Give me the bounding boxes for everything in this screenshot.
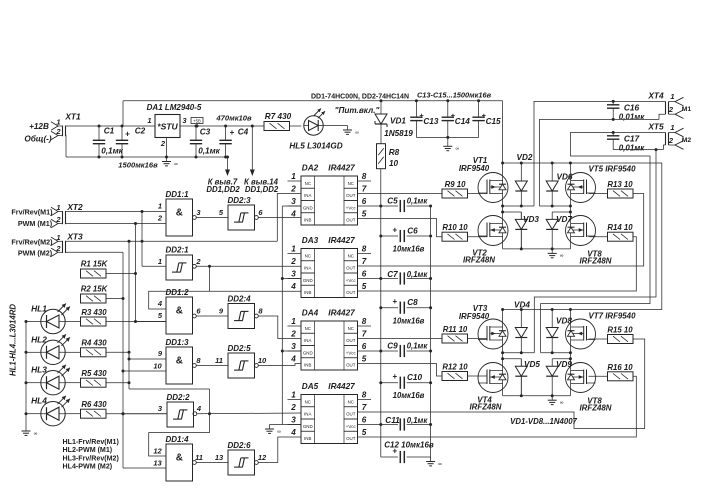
svg-text:*STU: *STU (157, 122, 178, 132)
svg-text:+5В: +5В (193, 118, 201, 123)
svg-text:DA2: DA2 (302, 164, 319, 173)
svg-text:1: 1 (56, 233, 60, 242)
svg-text:11: 11 (215, 356, 223, 365)
svg-text:C10: C10 (407, 373, 422, 382)
svg-text:C5: C5 (387, 196, 398, 205)
svg-text:R4 430: R4 430 (81, 339, 107, 348)
svg-text:DD1:2: DD1:2 (165, 288, 189, 297)
svg-text:10: 10 (258, 356, 267, 365)
svg-text:∞: ∞ (174, 161, 178, 167)
svg-text:&: & (176, 208, 183, 219)
svg-text:+Vcc: +Vcc (346, 350, 357, 355)
svg-text:C13-C15...1500мк16в: C13-C15...1500мк16в (417, 91, 492, 100)
svg-text:5: 5 (362, 282, 367, 291)
svg-text:IR4427: IR4427 (328, 382, 355, 391)
svg-text:GND: GND (303, 424, 313, 429)
svg-text:5: 5 (362, 428, 367, 437)
svg-text:DD1:1: DD1:1 (165, 190, 189, 199)
svg-text:0,1мк: 0,1мк (407, 270, 429, 279)
svg-text:1: 1 (56, 203, 60, 212)
svg-text:2: 2 (290, 184, 296, 193)
svg-text:DD1,DD2: DD1,DD2 (245, 185, 279, 194)
svg-text:1: 1 (291, 390, 296, 399)
svg-text:C12 10мк16в: C12 10мк16в (384, 440, 434, 449)
svg-text:IRFZ48N: IRFZ48N (579, 257, 611, 266)
svg-text:IR4427: IR4427 (328, 236, 355, 245)
svg-text:INB: INB (304, 436, 311, 441)
svg-text:2: 2 (55, 127, 61, 136)
svg-text:INA: INA (304, 193, 311, 198)
svg-text:1500мк16в: 1500мк16в (118, 161, 158, 170)
svg-text:Frv/Rev(M2): Frv/Rev(M2) (11, 237, 53, 246)
svg-text:6: 6 (362, 269, 367, 278)
svg-text:OUT: OUT (346, 218, 356, 223)
svg-text:R9 10: R9 10 (445, 180, 466, 189)
svg-text:1: 1 (291, 317, 296, 326)
svg-text:∞: ∞ (560, 253, 564, 259)
svg-text:∞: ∞ (277, 429, 281, 435)
svg-text:+: + (392, 372, 397, 381)
svg-text:13: 13 (153, 459, 162, 468)
svg-text:∞: ∞ (456, 146, 460, 152)
svg-text:2: 2 (668, 105, 674, 114)
svg-text:VD9: VD9 (556, 360, 572, 369)
svg-text:HL4-PWM (M2): HL4-PWM (M2) (63, 463, 113, 471)
svg-text:0,1мк: 0,1мк (101, 147, 123, 156)
svg-text:XT2: XT2 (66, 202, 83, 212)
svg-text:10мк16в: 10мк16в (393, 317, 425, 326)
svg-text:C17: C17 (624, 133, 640, 143)
svg-text:GND: GND (303, 350, 313, 355)
svg-text:DA5: DA5 (302, 382, 319, 391)
svg-text:2: 2 (157, 214, 163, 223)
svg-text:HL5 L3014GD: HL5 L3014GD (289, 142, 342, 151)
svg-text:8: 8 (362, 244, 367, 253)
svg-text:R10 10: R10 10 (442, 223, 468, 232)
svg-text:PWM (M2): PWM (M2) (18, 248, 53, 257)
svg-text:0,01мк: 0,01мк (619, 112, 645, 121)
svg-text:NC: NC (305, 181, 311, 186)
svg-text:1: 1 (158, 202, 162, 211)
svg-text:DD1:3: DD1:3 (165, 338, 189, 347)
svg-text:1: 1 (56, 117, 60, 126)
svg-text:R3 430: R3 430 (81, 308, 107, 317)
svg-text:OUT: OUT (346, 412, 356, 417)
svg-text:VD8: VD8 (556, 317, 572, 326)
svg-text:М1: М1 (682, 106, 692, 113)
svg-text:GND: GND (303, 278, 313, 283)
svg-text:+Vcc: +Vcc (346, 424, 357, 429)
svg-text:10: 10 (389, 159, 399, 168)
svg-text:IRFZ48N: IRFZ48N (579, 404, 611, 413)
svg-text:10: 10 (153, 362, 162, 371)
svg-text:2: 2 (55, 244, 61, 253)
svg-text:INA: INA (304, 412, 311, 417)
svg-text:Frv/Rev(M1): Frv/Rev(M1) (11, 208, 53, 217)
svg-text:PWM (M1): PWM (M1) (18, 219, 53, 228)
svg-text:R13 10: R13 10 (607, 180, 633, 189)
svg-text:OUT: OUT (346, 290, 356, 295)
svg-text:10мк16в: 10мк16в (393, 391, 425, 400)
svg-text:2: 2 (290, 329, 296, 338)
svg-text:+: + (392, 297, 397, 306)
svg-text:М2: М2 (682, 137, 692, 144)
svg-text:INA: INA (304, 266, 311, 271)
svg-text:C13: C13 (423, 117, 438, 126)
svg-text:Общ(-): Общ(-) (24, 134, 52, 144)
svg-text:12: 12 (153, 447, 162, 456)
svg-text:HL1-Frv/Rev(M1): HL1-Frv/Rev(M1) (63, 438, 120, 446)
svg-text:&: & (176, 356, 183, 367)
svg-text:2: 2 (668, 136, 674, 145)
svg-text:C3: C3 (200, 128, 211, 137)
svg-text:HL2-PWM (M1): HL2-PWM (M1) (63, 446, 113, 454)
svg-text:7: 7 (362, 257, 367, 266)
svg-text:1: 1 (291, 172, 296, 181)
svg-text:IRF9540: IRF9540 (459, 164, 490, 173)
svg-text:DD2:1: DD2:1 (165, 246, 189, 255)
svg-text:3: 3 (291, 197, 296, 206)
svg-text:DA3: DA3 (302, 236, 319, 245)
svg-text:R1 15K: R1 15K (81, 260, 109, 269)
svg-text:2: 2 (195, 257, 201, 266)
svg-text:C8: C8 (407, 298, 418, 307)
svg-text:OUT: OUT (346, 338, 356, 343)
svg-text:C15: C15 (486, 117, 501, 126)
svg-text:IRFZ48N: IRFZ48N (469, 403, 501, 412)
svg-text:1: 1 (670, 92, 674, 101)
svg-text:NC: NC (305, 326, 311, 331)
svg-text:2: 2 (160, 139, 166, 148)
svg-text:VT5 IRF9540: VT5 IRF9540 (589, 164, 637, 173)
svg-text:HL1-HL4...L3014RD: HL1-HL4...L3014RD (9, 304, 18, 376)
svg-text:XT3: XT3 (66, 232, 83, 242)
svg-text:C7: C7 (387, 270, 398, 279)
svg-text:6: 6 (362, 342, 367, 351)
svg-text:DD2:3: DD2:3 (227, 196, 251, 205)
svg-text:4: 4 (290, 209, 296, 218)
svg-text:IRFZ48N: IRFZ48N (463, 256, 495, 265)
svg-text:0,1мк: 0,1мк (407, 416, 429, 425)
svg-text:4: 4 (196, 404, 202, 413)
svg-text:XT4: XT4 (647, 91, 664, 101)
svg-text:&: & (176, 306, 183, 317)
svg-text:+: + (125, 130, 130, 139)
svg-text:6: 6 (362, 415, 367, 424)
svg-text:R16 10: R16 10 (607, 363, 633, 372)
svg-text:DD2:4: DD2:4 (227, 295, 251, 304)
svg-text:2: 2 (290, 403, 296, 412)
svg-text:"Пит.вкл.": "Пит.вкл." (335, 106, 380, 115)
svg-text:HL1: HL1 (31, 304, 47, 314)
svg-text:470мк10в: 470мк10в (215, 114, 252, 123)
svg-text:+Vcc: +Vcc (346, 205, 357, 210)
svg-text:1: 1 (147, 116, 151, 125)
svg-text:C2: C2 (135, 127, 146, 136)
svg-text:INB: INB (304, 290, 311, 295)
svg-text:R8: R8 (389, 148, 400, 157)
svg-text:4: 4 (290, 354, 296, 363)
svg-text:DD2:2: DD2:2 (166, 393, 190, 402)
svg-text:HL2: HL2 (31, 334, 47, 344)
svg-text:GND: GND (303, 205, 313, 210)
svg-text:R6 430: R6 430 (81, 400, 107, 409)
svg-text:C6: C6 (407, 227, 418, 236)
svg-text:NC: NC (348, 181, 354, 186)
svg-text:3: 3 (291, 269, 296, 278)
svg-text:DD2:5: DD2:5 (227, 344, 251, 353)
svg-text:INB: INB (304, 218, 311, 223)
svg-text:1N5819: 1N5819 (384, 129, 413, 138)
svg-text:IR4427: IR4427 (328, 309, 355, 318)
svg-text:R5 430: R5 430 (81, 369, 107, 378)
svg-text:OUT: OUT (346, 436, 356, 441)
svg-text:XT1: XT1 (64, 112, 81, 122)
svg-text:13: 13 (215, 453, 224, 462)
svg-text:R12 10: R12 10 (442, 363, 468, 372)
svg-text:C16: C16 (624, 102, 640, 112)
svg-text:C1: C1 (104, 127, 115, 136)
svg-text:C9: C9 (387, 341, 398, 350)
svg-text:2: 2 (290, 257, 296, 266)
svg-text:1: 1 (291, 244, 296, 253)
svg-text:3: 3 (291, 342, 296, 351)
svg-text:+12В: +12В (29, 122, 49, 131)
svg-text:0,1мк: 0,1мк (407, 196, 429, 205)
svg-text:R11 10: R11 10 (443, 325, 468, 334)
svg-text:+Vcc: +Vcc (346, 278, 357, 283)
svg-text:NC: NC (348, 326, 354, 331)
svg-text:0,01мк: 0,01мк (619, 143, 645, 152)
svg-text:10мк16в: 10мк16в (393, 245, 425, 254)
svg-text:OUT: OUT (346, 193, 356, 198)
svg-text:OUT: OUT (346, 266, 356, 271)
svg-text:∞: ∞ (438, 461, 442, 467)
svg-text:C4: C4 (238, 128, 249, 137)
svg-text:DD1-74HC00N, DD2-74HC14N: DD1-74HC00N, DD2-74HC14N (311, 94, 409, 101)
svg-text:INA: INA (304, 338, 311, 343)
svg-text:DD2:6: DD2:6 (227, 441, 251, 450)
svg-text:R2 15K: R2 15K (81, 285, 109, 294)
svg-text:IR4427: IR4427 (328, 164, 355, 173)
svg-text:XT5: XT5 (647, 122, 664, 132)
svg-text:INB: INB (304, 363, 311, 368)
svg-text:R14 10: R14 10 (607, 223, 633, 232)
svg-text:VD1: VD1 (390, 117, 406, 126)
svg-text:6: 6 (362, 197, 367, 206)
svg-text:NC: NC (348, 399, 354, 404)
svg-text:4: 4 (290, 282, 296, 291)
svg-text:4: 4 (290, 428, 296, 437)
svg-text:VD7: VD7 (556, 215, 572, 224)
svg-text:0,1мк: 0,1мк (198, 147, 220, 156)
svg-text:NC: NC (305, 253, 311, 258)
svg-text:2: 2 (55, 215, 61, 224)
svg-text:VD2: VD2 (517, 153, 533, 162)
svg-text:NC: NC (305, 399, 311, 404)
svg-text:0,1мк: 0,1мк (407, 341, 429, 350)
svg-text:HL3-Frv/Rev(M2): HL3-Frv/Rev(M2) (63, 454, 120, 462)
svg-text:VD4: VD4 (514, 301, 530, 310)
svg-text:∞: ∞ (560, 400, 564, 406)
svg-text:12: 12 (258, 453, 267, 462)
svg-text:7: 7 (362, 184, 367, 193)
svg-text:VD6: VD6 (557, 172, 573, 181)
svg-text:DD1:4: DD1:4 (165, 435, 189, 444)
svg-text:VD1-VD8...1N4007: VD1-VD8...1N4007 (510, 417, 577, 426)
svg-text:∞: ∞ (355, 130, 359, 136)
svg-text:11: 11 (195, 453, 203, 462)
svg-text:5: 5 (362, 354, 367, 363)
svg-text:C11: C11 (385, 416, 400, 425)
svg-text:VD3: VD3 (523, 215, 539, 224)
svg-text:&: & (176, 453, 183, 464)
svg-text:OUT: OUT (346, 363, 356, 368)
svg-text:8: 8 (362, 317, 367, 326)
svg-text:R7 430: R7 430 (265, 112, 292, 121)
svg-text:8: 8 (362, 390, 367, 399)
svg-text:4: 4 (157, 299, 163, 308)
svg-text:+: + (230, 128, 235, 137)
svg-text:VT7 IRF9540: VT7 IRF9540 (589, 311, 637, 320)
svg-text:8: 8 (362, 172, 367, 181)
svg-text:5: 5 (362, 209, 367, 218)
svg-text:∞: ∞ (34, 431, 38, 437)
svg-text:NC: NC (348, 253, 354, 258)
svg-text:1: 1 (670, 123, 674, 132)
svg-text:HL3: HL3 (31, 365, 47, 375)
svg-text:7: 7 (362, 403, 367, 412)
svg-text:VD5: VD5 (524, 360, 540, 369)
svg-text:HL4: HL4 (31, 396, 47, 406)
svg-text:7: 7 (362, 329, 367, 338)
svg-text:1: 1 (158, 257, 162, 266)
svg-text:DA4: DA4 (302, 309, 319, 318)
svg-text:IRF9540: IRF9540 (459, 312, 490, 321)
svg-text:DD1,DD2: DD1,DD2 (206, 185, 240, 194)
svg-text:+: + (392, 226, 397, 235)
svg-text:DA1 LM2940-5: DA1 LM2940-5 (147, 103, 202, 112)
svg-text:R15 10: R15 10 (607, 326, 633, 335)
svg-text:3: 3 (291, 415, 296, 424)
svg-text:C14: C14 (455, 117, 470, 126)
